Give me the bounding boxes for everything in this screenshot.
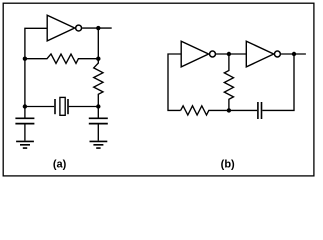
wire: rail from node D to capacitor C3 (229, 109, 257, 111)
junction: R1 left node (23, 57, 27, 61)
crystal X1 body (60, 97, 65, 115)
junction: bottom rail node D (227, 108, 231, 112)
border frame (3, 3, 314, 176)
wire: node A down to R1 right node (97, 28, 99, 59)
wire: C1 bottom lead to ground (24, 124, 26, 140)
resistor R3 (horizontal, on bottom rail) (181, 106, 229, 115)
capacitor C1 (15, 118, 34, 123)
junction: R1 right node (96, 57, 100, 61)
svg-text:(a): (a) (53, 158, 67, 170)
junction: node C (U3 output) (292, 52, 296, 56)
wire: U2 output to U3 input (216, 53, 246, 55)
inverter U2 (181, 41, 208, 67)
wire: U1 output to node A and output stub (82, 27, 112, 29)
ground (left) (16, 141, 34, 148)
wire: feedback left column from U2 input to bottom rail (168, 54, 181, 110)
inverter U2 output bubble (210, 51, 216, 57)
inverter U1 output bubble (76, 25, 82, 31)
wire: feedback from U1 input, left column down to crystal node (25, 28, 47, 106)
wire: C1 top lead (24, 107, 26, 118)
wire: U3 output to node C and output stub (281, 53, 306, 55)
capacitor C2 (89, 118, 108, 123)
wire: C2 top lead (97, 107, 99, 118)
svg-text:(b): (b) (221, 158, 235, 170)
ground (right) (90, 141, 108, 148)
inverter U1 (47, 15, 74, 41)
wire: crystal row left segment (25, 106, 54, 108)
crystal X1 right plate (67, 99, 69, 114)
wire: C2 bottom lead to ground (97, 124, 99, 140)
junction: crystal right node (96, 104, 100, 108)
wire: crystal row right segment (69, 106, 99, 108)
junction: node B (between inverters) (227, 52, 231, 56)
junction: node A (U1 output) (96, 26, 100, 30)
capacitor C3 (258, 102, 262, 119)
wire: C3 to right column up to node C (262, 54, 294, 110)
junction: crystal left node (23, 104, 27, 108)
resistor R4 (vertical, node B to bottom rail node D) (224, 54, 233, 110)
inverter U3 (246, 41, 273, 67)
resistor R2 (vertical, node A to crystal right node) (94, 59, 103, 107)
inverter U3 output bubble (274, 51, 280, 57)
resistor R1 (feedback, horizontal) (25, 54, 98, 63)
crystal X1 left plate (54, 99, 56, 114)
